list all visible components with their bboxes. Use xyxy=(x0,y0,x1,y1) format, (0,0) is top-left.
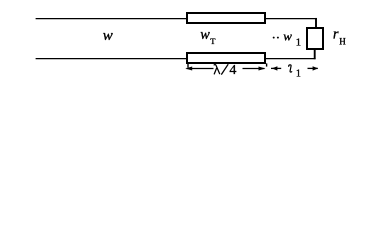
dimension lambda/4 right arrow xyxy=(243,67,266,71)
resistor r_H (load box) xyxy=(307,28,323,49)
svg-text:1: 1 xyxy=(296,37,302,49)
svg-text:w: w xyxy=(200,27,210,43)
continuation dots xyxy=(273,37,275,39)
svg-text:r: r xyxy=(333,26,339,42)
transmission line section box w_T (top) xyxy=(187,13,265,23)
svg-text:w: w xyxy=(283,28,292,43)
label lambda/4 xyxy=(214,63,237,78)
svg-text:H: H xyxy=(339,36,346,46)
svg-text:T: T xyxy=(210,36,216,46)
wire bottom-right segment xyxy=(265,58,316,60)
witness line right (below lambda/4 box) xyxy=(266,63,268,66)
wire top-right segment xyxy=(265,18,317,20)
label l_1 xyxy=(289,65,301,80)
transmission line section box lambda/4 (bottom) xyxy=(187,53,265,63)
dimension l_1 left arrow xyxy=(271,66,281,70)
wire corner drop to load xyxy=(315,18,317,28)
svg-text:4: 4 xyxy=(229,63,236,78)
wire resistor bottom stub xyxy=(314,49,316,59)
svg-text:1: 1 xyxy=(296,68,301,79)
wire bottom-left segment xyxy=(36,58,187,60)
svg-text:w: w xyxy=(103,28,113,44)
dimension lambda/4 left arrow xyxy=(185,67,213,71)
dimension l_1 right arrow xyxy=(308,66,319,70)
wire top-left segment xyxy=(36,18,187,20)
witness line left (below lambda/4 box) xyxy=(187,63,189,67)
